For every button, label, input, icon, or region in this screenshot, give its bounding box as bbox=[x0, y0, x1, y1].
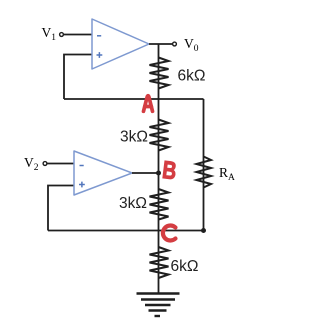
resistor 6k bottom zigzag bbox=[150, 247, 169, 278]
wire: U1 output to V0 terminal bbox=[149, 43, 173, 45]
node C red letter bbox=[163, 226, 176, 241]
svg-text:3kΩ: 3kΩ bbox=[120, 129, 148, 146]
node V1 terminal circle bbox=[60, 33, 64, 37]
resistor 3k lower zigzag bbox=[150, 189, 169, 220]
wire: node A horizontal from feedback corner across rail to RA branch bbox=[64, 98, 204, 100]
node V0 terminal circle bbox=[173, 42, 177, 46]
op-amp U1 bbox=[92, 19, 149, 69]
svg-text:3kΩ: 3kΩ bbox=[119, 195, 147, 212]
wire: U1 feedback from non-inverting input down to node A bbox=[64, 55, 92, 100]
wire: V1 input to op-amp U1 inverting input bbox=[64, 34, 93, 36]
ground symbol bbox=[137, 294, 180, 317]
node B junction dot bbox=[156, 171, 161, 176]
wire: U2 feedback from non-inverting input down to node C line bbox=[48, 186, 74, 231]
wire: node C horizontal from feedback corner across rail to RA branch bbox=[48, 230, 204, 232]
resistor 3k upper zigzag bbox=[150, 120, 169, 151]
wire: U2 output to node B bbox=[132, 172, 159, 174]
svg-text:6kΩ: 6kΩ bbox=[171, 258, 199, 275]
wire: RA branch vertical from node A to node C bbox=[203, 99, 205, 231]
resistor RA zigzag bbox=[197, 157, 212, 188]
node A red letter bbox=[144, 96, 153, 112]
wire: main vertical rail from U1 output down to ground bbox=[158, 44, 160, 293]
node C junction dot right bbox=[201, 228, 206, 233]
resistor 6k top zigzag bbox=[150, 58, 169, 89]
wire: V2 input to op-amp U2 inverting input bbox=[47, 163, 74, 165]
svg-text:6kΩ: 6kΩ bbox=[178, 68, 206, 85]
op-amp U2 bbox=[74, 151, 132, 195]
node V2 terminal circle bbox=[43, 162, 47, 166]
